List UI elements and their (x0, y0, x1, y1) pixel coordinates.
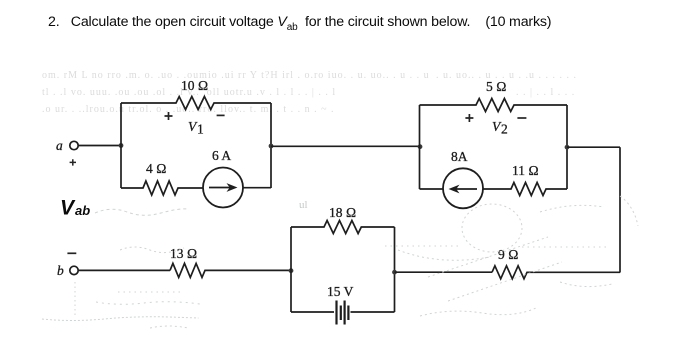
svg-text:5 Ω: 5 Ω (486, 79, 507, 94)
terminal a (70, 141, 78, 149)
current source 8A (443, 168, 483, 208)
resistor R 13Ω (170, 263, 291, 277)
wire: middle loop right vertical (394, 227, 396, 312)
ghost bleed-through text row 2 (42, 87, 336, 98)
label Vab (60, 197, 90, 220)
node: right of left loop (269, 144, 274, 149)
ghost bleed-through text row 1 (42, 70, 430, 81)
svg-text:15 V: 15 V (327, 284, 354, 299)
terminal b (70, 266, 78, 274)
resistor R 4Ω (bottom of left loop) (121, 181, 203, 195)
svg-text:11 Ω: 11 Ω (512, 163, 539, 178)
wire: b to 13Ω (78, 269, 170, 271)
resistor R 9Ω (492, 266, 620, 279)
svg-text:. . | . . l . . .: . . | . . l . . . (516, 87, 575, 98)
node: right of right loop (565, 145, 570, 150)
svg-text:10 Ω: 10 Ω (181, 78, 208, 93)
wire: right loop right vertical (566, 105, 568, 189)
svg-text:9 Ω: 9 Ω (498, 247, 519, 262)
wire: right loop left vertical (419, 105, 421, 189)
wire: left loop left vertical (120, 103, 122, 188)
label + (V2) (465, 114, 473, 122)
ghost bleed-through text row 3 (42, 104, 335, 115)
node: left of top row (119, 143, 124, 148)
svg-text:om. rM L no rro .m. o. .u: om. rM L no rro .m. o. .uo . .oumio .ui … (42, 70, 430, 81)
resistor R 18Ω (top of middle loop) (291, 221, 395, 234)
svg-text:8A: 8A (451, 149, 468, 164)
svg-text:2: 2 (501, 122, 508, 137)
svg-text:b: b (57, 263, 64, 278)
wire: node to right rail (567, 146, 620, 148)
label + (V1) (165, 112, 173, 120)
wire: between loops (271, 145, 420, 147)
wire: 6A to right side of left loop (243, 187, 271, 189)
wire: right rail vertical (619, 147, 621, 272)
ghost faint artifacts lower area (42, 196, 638, 328)
node: 13Ω to middle loop (289, 268, 294, 273)
label − (V2) (517, 117, 526, 119)
svg-text:a: a (56, 138, 63, 153)
svg-text:ul: ul (299, 199, 308, 211)
wire: a to left loop (78, 145, 121, 147)
resistor R 5Ω (top of right loop) (420, 99, 568, 112)
svg-text:. u. uo.. . u . . u .: . u. uo.. . u . . u . .u . . . . . . (436, 70, 577, 81)
svg-text:ab: ab (75, 203, 90, 218)
resistor R 10Ω (top of left loop) (121, 97, 271, 110)
svg-text:6 A: 6 A (212, 148, 231, 163)
node: left of right loop (418, 144, 423, 149)
node: middle loop to 9Ω (392, 270, 397, 275)
wire: left loop right vertical (270, 103, 272, 188)
svg-text:4 Ω: 4 Ω (146, 161, 167, 176)
label − (V1) (217, 114, 225, 116)
wire: middle loop left vertical (290, 227, 292, 312)
svg-text:V: V (60, 197, 76, 220)
label − (Vab minus) (67, 252, 76, 254)
ghost bleed-through right fragments (436, 70, 577, 81)
wire: right loop bottom left (420, 188, 444, 190)
svg-text:18 Ω: 18 Ω (329, 205, 356, 220)
svg-text:1: 1 (197, 122, 204, 137)
current source 6A (203, 168, 243, 208)
resistor R 11Ω (bottom of right loop) (483, 183, 567, 196)
battery 15V (291, 301, 395, 325)
wire: middle loop to 9Ω (395, 271, 493, 273)
label + (Vab plus) (70, 159, 76, 165)
